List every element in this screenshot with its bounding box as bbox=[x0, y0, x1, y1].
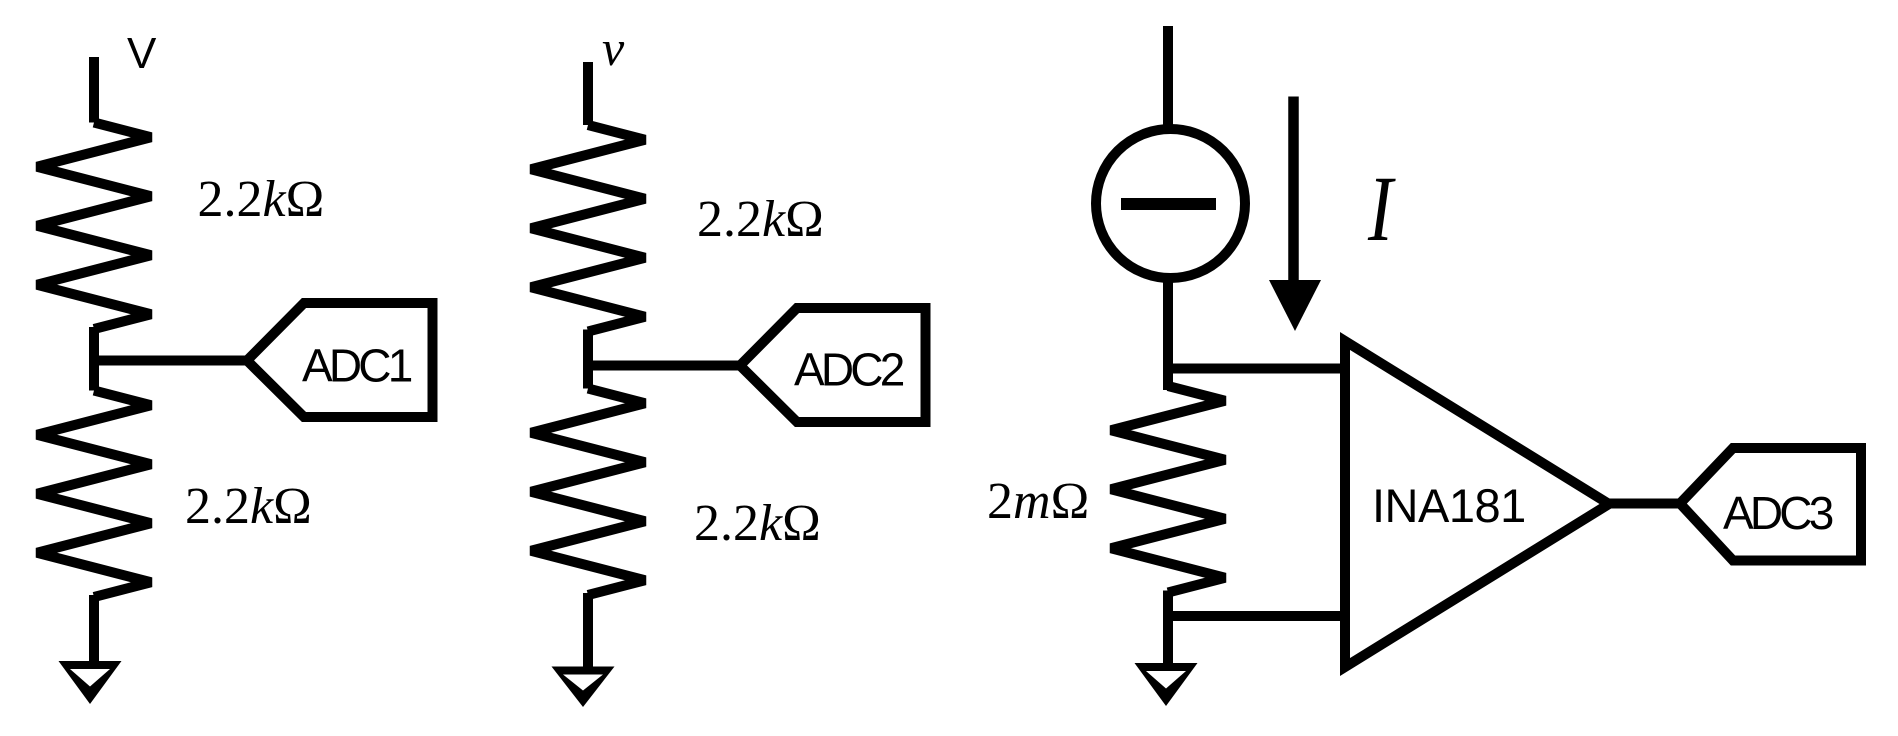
wire shunt top node to INA181 IN+ bbox=[1168, 364, 1345, 374]
ground (current sense) bbox=[1135, 663, 1198, 706]
wire supply into current source bbox=[1163, 26, 1173, 132]
ADC1 connector bbox=[247, 303, 433, 417]
current arrow I bbox=[1269, 97, 1321, 332]
wire R2 to ground (divider 1) bbox=[89, 595, 99, 666]
ground (divider 1) bbox=[59, 661, 122, 704]
svg-text:2.2kΩ: 2.2kΩ bbox=[697, 191, 824, 248]
svg-text:ADC1: ADC1 bbox=[302, 340, 412, 392]
wire shunt bottom node to INA181 IN- bbox=[1168, 611, 1345, 621]
shunt resistor 2mΩ bbox=[1111, 386, 1225, 593]
wire R1 to R2 midpoint node (divider 1) bbox=[89, 327, 99, 391]
wire shunt bottom to ground bbox=[1163, 591, 1173, 669]
svg-text:INA181: INA181 bbox=[1372, 479, 1526, 532]
svg-text:2mΩ: 2mΩ bbox=[987, 473, 1089, 530]
current source minus bar bbox=[1121, 198, 1216, 210]
svg-text:ADC3: ADC3 bbox=[1723, 487, 1833, 539]
current source I1 (circle) bbox=[1096, 129, 1245, 278]
wire R4 to ground (divider 2) bbox=[583, 593, 593, 671]
ground (divider 2) bbox=[552, 667, 615, 708]
wire current source to shunt top node bbox=[1163, 276, 1173, 390]
wire INA181 output to ADC3 bbox=[1609, 499, 1680, 509]
wire midpoint tap to ADC1 bbox=[94, 356, 247, 366]
svg-text:I: I bbox=[1367, 158, 1396, 261]
ADC2 connector bbox=[740, 308, 926, 422]
svg-text:v: v bbox=[602, 20, 625, 76]
op-amp U1 INA181 (triangle) bbox=[1345, 341, 1609, 667]
wire v supply down to R3 (divider 2) bbox=[583, 62, 593, 125]
svg-text:2.2kΩ: 2.2kΩ bbox=[185, 478, 312, 535]
svg-text:2.2kΩ: 2.2kΩ bbox=[198, 171, 325, 228]
wire midpoint tap to ADC2 bbox=[588, 361, 740, 371]
resistor 2.2kΩ upper (divider 2) bbox=[531, 125, 645, 332]
resistor 2.2kΩ lower (divider 1) bbox=[37, 391, 151, 598]
wire R3 to R4 midpoint node (divider 2) bbox=[583, 330, 593, 389]
wire V supply down to R1 (divider 1) bbox=[89, 57, 99, 123]
resistor 2.2kΩ upper (divider 1) bbox=[37, 123, 151, 330]
resistor 2.2kΩ lower (divider 2) bbox=[531, 389, 645, 596]
svg-text:2.2kΩ: 2.2kΩ bbox=[694, 495, 821, 552]
svg-text:ADC2: ADC2 bbox=[794, 344, 904, 396]
svg-text:V: V bbox=[127, 29, 157, 78]
ADC3 connector bbox=[1680, 448, 1861, 561]
